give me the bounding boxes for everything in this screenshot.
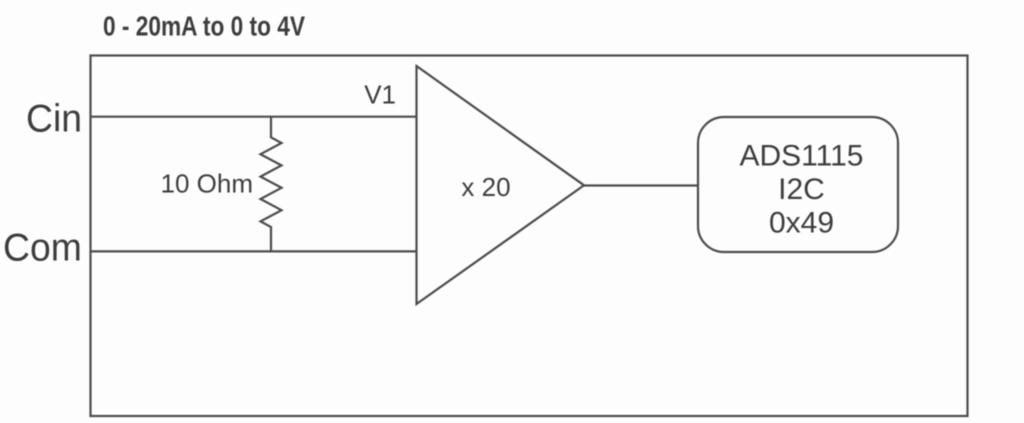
svg-text:Com: Com <box>3 227 82 270</box>
node Cin <box>26 98 82 141</box>
gain label x 20 <box>461 172 510 202</box>
svg-text:ADS1115: ADS1115 <box>740 139 864 172</box>
title 0 - 20mA to 0 to 4V <box>103 12 305 43</box>
svg-text:V1: V1 <box>364 80 396 110</box>
label ADS1115 I2C 0x49 <box>740 139 864 239</box>
svg-text:0 - 20mA to 0 to 4V: 0 - 20mA to 0 to 4V <box>103 12 305 43</box>
node Com <box>3 227 82 270</box>
svg-text:10 Ohm: 10 Ohm <box>161 169 254 199</box>
value label 10 Ohm <box>161 169 254 199</box>
ADC U2 ADS1115 <box>698 117 898 252</box>
svg-text:Cin: Cin <box>26 98 82 141</box>
svg-text:0x49: 0x49 <box>769 207 834 240</box>
resistor R1 <box>261 117 282 252</box>
svg-text:x 20: x 20 <box>461 172 510 202</box>
node V1 <box>364 80 396 110</box>
op-amp U1 <box>417 66 585 304</box>
wire Com input <box>91 250 417 252</box>
wire Cin input <box>91 116 417 118</box>
svg-text:I2C: I2C <box>778 173 825 206</box>
wire op-amp output <box>584 184 698 186</box>
